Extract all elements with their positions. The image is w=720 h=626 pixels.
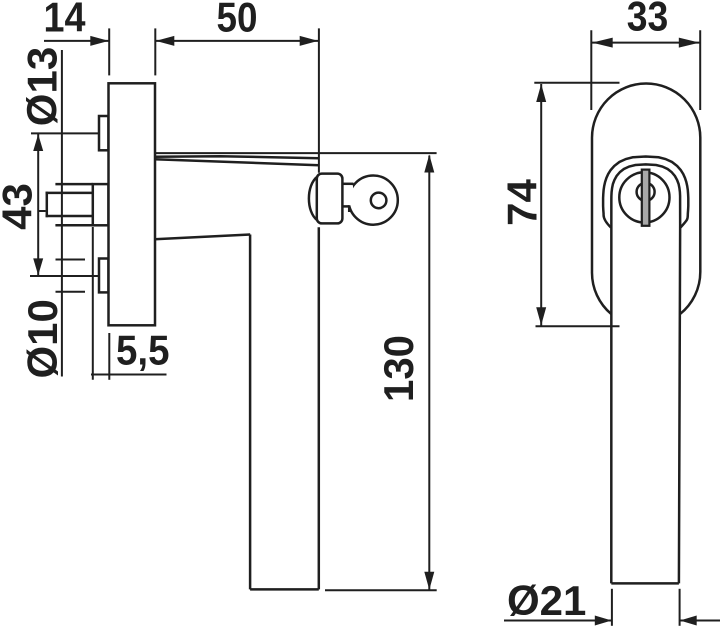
svg-text:43: 43 [0, 183, 41, 230]
svg-text:50: 50 [217, 0, 258, 41]
svg-text:33: 33 [627, 0, 669, 40]
svg-text:Ø21: Ø21 [507, 577, 586, 624]
svg-text:Ø13: Ø13 [19, 47, 66, 126]
svg-text:130: 130 [375, 335, 422, 402]
svg-text:74: 74 [499, 179, 546, 226]
svg-text:Ø10: Ø10 [19, 299, 66, 378]
svg-text:5,5: 5,5 [116, 327, 170, 374]
svg-text:14: 14 [44, 0, 87, 41]
